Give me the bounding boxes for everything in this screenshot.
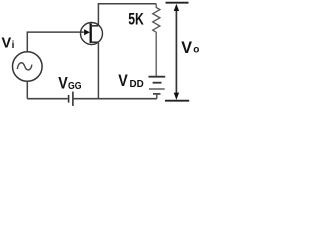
svg-text:V: V [181,39,192,57]
svg-text:GG: GG [68,80,82,92]
svg-text:DD: DD [130,78,145,90]
svg-text:o: o [193,45,199,56]
svg-text:V: V [118,71,128,90]
svg-text:i: i [12,40,15,51]
svg-text:5K: 5K [128,10,144,29]
svg-text:V: V [58,74,68,93]
svg-text:V: V [2,35,12,51]
